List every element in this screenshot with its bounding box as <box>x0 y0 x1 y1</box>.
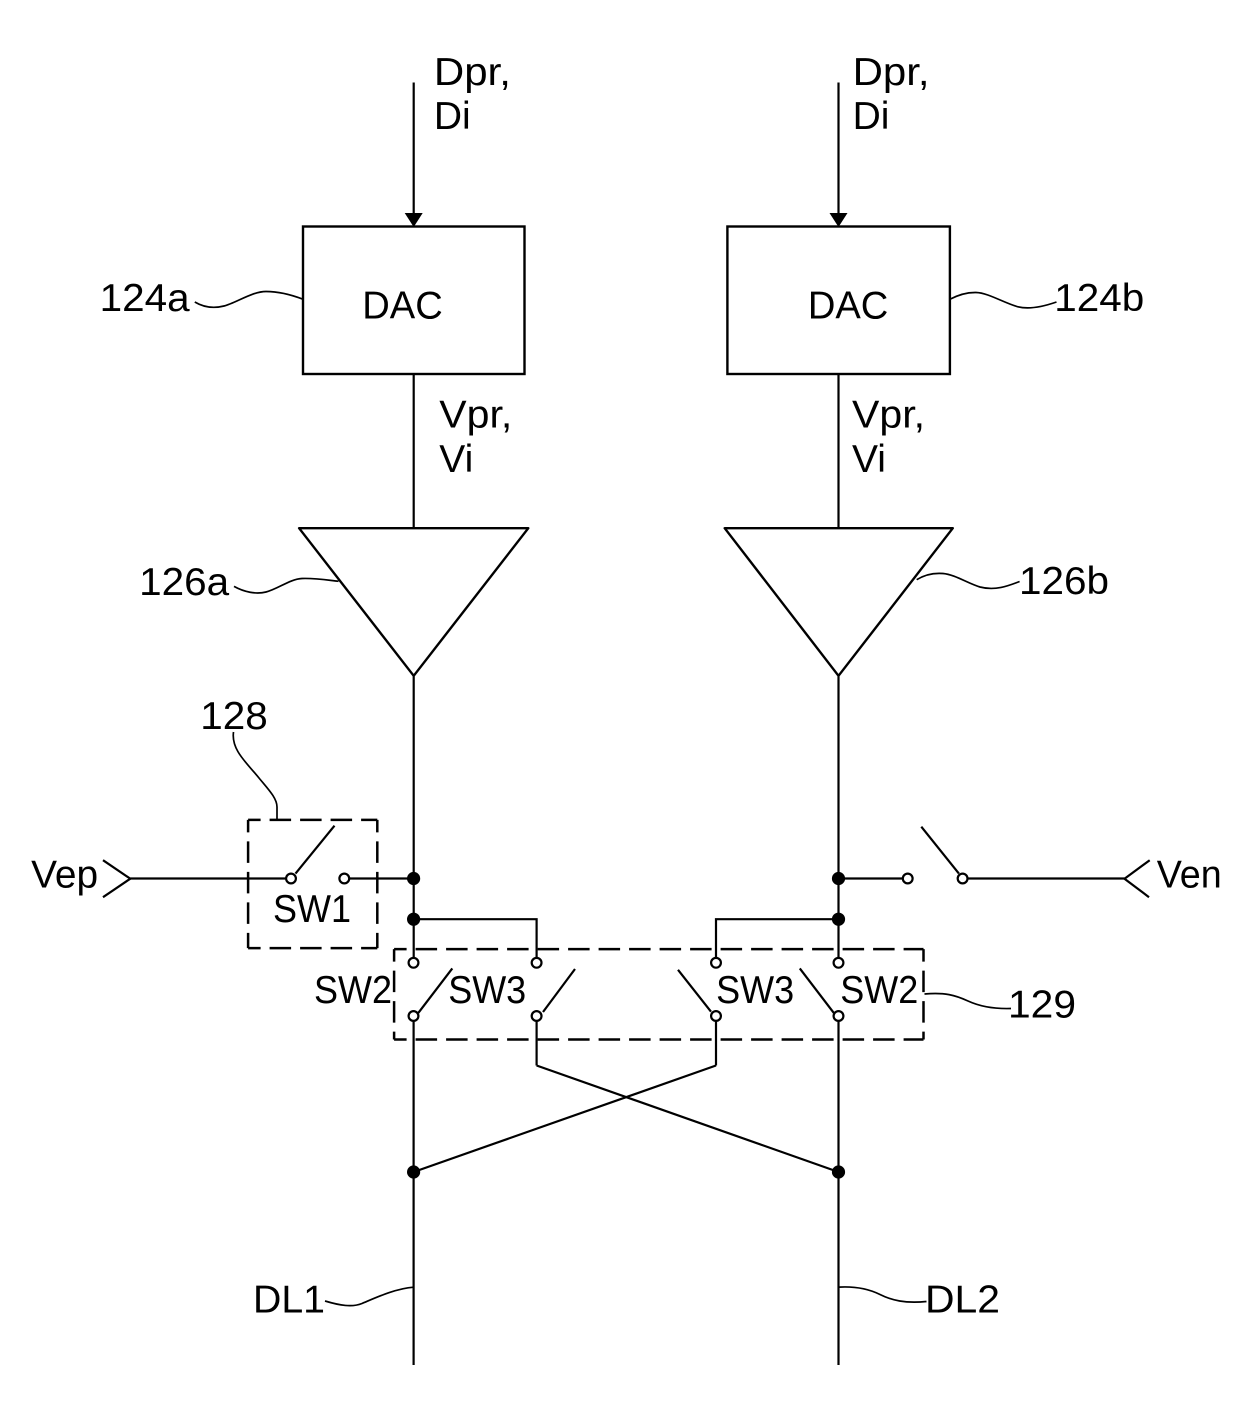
wire: DAC 124a to amp 126a <box>413 374 415 528</box>
leader squiggle 129 <box>925 993 1012 1008</box>
wire: amp 126b output down <box>837 677 839 959</box>
wire: right switch to Ven chevron <box>968 877 1125 879</box>
input chevron Ven <box>1125 860 1150 897</box>
svg-text:124b: 124b <box>1054 277 1144 320</box>
wire: SW3 left stub down <box>535 1021 537 1066</box>
switch SW3 (left) <box>532 958 575 1021</box>
svg-text:Dpr,: Dpr, <box>853 51 930 94</box>
leader squiggle DL2 <box>839 1287 927 1302</box>
wire: input to DAC 124a <box>413 83 415 215</box>
svg-text:Vi: Vi <box>439 438 473 481</box>
net label Dpr,Di (right) <box>853 51 930 138</box>
svg-text:126b: 126b <box>1019 560 1109 603</box>
svg-text:Vi: Vi <box>852 438 886 481</box>
svg-text:Di: Di <box>853 95 890 138</box>
DAC 124a box <box>303 227 525 375</box>
svg-text:SW2: SW2 <box>314 969 392 1012</box>
svg-text:SW3: SW3 <box>716 969 794 1012</box>
leader squiggle DL1 <box>325 1287 414 1305</box>
net label Vpr,Vi (right) <box>852 394 925 481</box>
wire: node to right switch <box>839 877 903 879</box>
leader squiggle 126a <box>234 578 339 593</box>
wire: input to DAC 124b <box>837 83 839 215</box>
dashed box 128 <box>248 820 377 948</box>
amplifier 126a (triangle) <box>299 528 528 676</box>
wire: SW2 right down to DL2 <box>837 1021 839 1365</box>
svg-text:126a: 126a <box>139 561 229 604</box>
junction node (right, Ven) <box>832 872 845 885</box>
svg-text:Vep: Vep <box>31 854 98 897</box>
wire: SW3 right stub down <box>715 1021 717 1066</box>
input chevron Vep <box>103 860 130 897</box>
leader squiggle 124b <box>950 292 1057 307</box>
switch (Ven side) <box>903 827 968 884</box>
wire: Vep to SW1 <box>130 877 286 879</box>
svg-text:SW2: SW2 <box>840 969 918 1012</box>
net label Vpr,Vi (left) <box>439 394 512 481</box>
junction node (left, branch) <box>407 913 420 926</box>
svg-text:DL2: DL2 <box>925 1279 1000 1322</box>
junction node (left, Vep) <box>407 872 420 885</box>
wire: amp 126a output down <box>413 677 415 959</box>
wire: cross diagonal right-to-left <box>414 1066 716 1173</box>
svg-text:128: 128 <box>200 695 267 738</box>
switch SW3 (right) <box>678 958 721 1021</box>
amplifier 126b (triangle) <box>725 528 953 676</box>
switch SW1 <box>286 826 349 884</box>
wire: right branch to SW3 column <box>716 919 839 958</box>
svg-text:SW3: SW3 <box>448 969 526 1012</box>
svg-text:Di: Di <box>434 95 471 138</box>
arrowhead into DAC 124a <box>405 213 423 227</box>
wire: SW2 left down to DL1 <box>413 1021 415 1365</box>
svg-text:SW1: SW1 <box>273 888 351 931</box>
svg-text:124a: 124a <box>100 277 190 320</box>
svg-text:Dpr,: Dpr, <box>434 51 511 94</box>
wire: DAC 124b to amp 126b <box>837 374 839 528</box>
leader squiggle 124a <box>195 292 303 308</box>
leader curve 128 <box>233 732 277 820</box>
switch SW2 (right) <box>800 958 844 1021</box>
DAC 124b box <box>727 227 950 375</box>
svg-text:129: 129 <box>1008 984 1076 1027</box>
switch SW2 (left) <box>409 958 453 1021</box>
svg-text:DL1: DL1 <box>253 1279 325 1322</box>
svg-text:Ven: Ven <box>1157 854 1222 897</box>
junction node DL2 <box>832 1165 845 1178</box>
junction node (right, branch) <box>832 913 845 926</box>
svg-text:Vpr,: Vpr, <box>852 394 925 437</box>
svg-text:Vpr,: Vpr, <box>439 394 512 437</box>
net label Dpr,Di (left) <box>434 51 511 138</box>
leader squiggle 126b <box>917 573 1020 588</box>
arrowhead into DAC 124b <box>830 213 848 227</box>
dashed box 129 <box>394 949 923 1039</box>
svg-text:DAC: DAC <box>362 285 443 328</box>
svg-text:DAC: DAC <box>808 285 889 328</box>
junction node DL1 <box>407 1165 420 1178</box>
wire: left branch to SW3 column <box>414 919 537 958</box>
wire: cross diagonal left-to-right <box>537 1066 839 1173</box>
wire: SW1 to node <box>349 877 414 879</box>
